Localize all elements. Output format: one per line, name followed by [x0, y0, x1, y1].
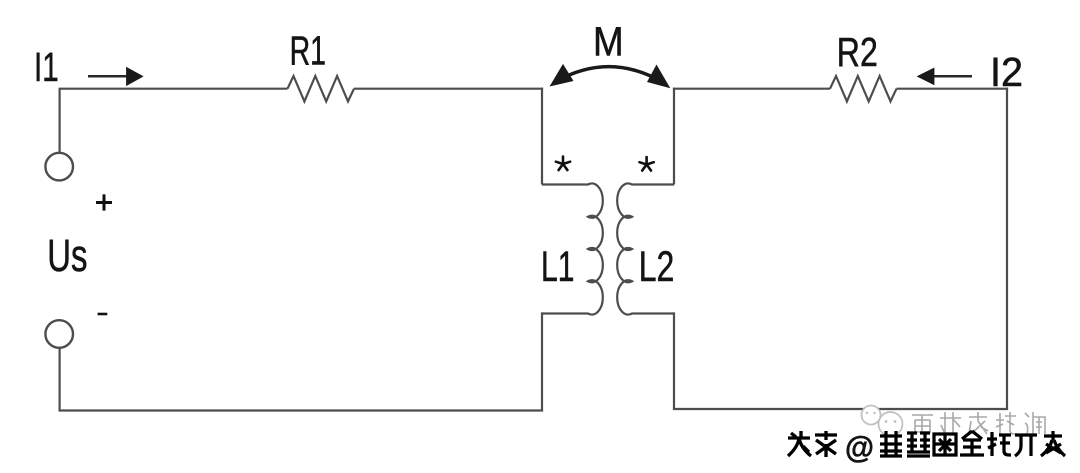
source terminal circle bottom — [45, 320, 73, 348]
wire left coupling drop — [541, 88, 543, 185]
wire bottom rail right — [673, 408, 1008, 410]
mutual coupling arrow M — [556, 67, 664, 83]
watermark black text (toutiao @ IoT fullstack dev) — [788, 431, 837, 457]
inductor L2 — [617, 183, 674, 314]
wire left lower vertical — [541, 312, 543, 410]
wire top rail right-inner — [673, 88, 830, 90]
inductor L1 — [542, 183, 603, 314]
source terminal circle top — [45, 153, 73, 181]
wire top rail left — [59, 88, 288, 90]
svg-text:L1: L1 — [541, 243, 574, 291]
current arrow I1 — [88, 75, 128, 78]
polarity dot marking L1 (asterisk) — [556, 157, 570, 171]
svg-text:L2: L2 — [639, 243, 675, 291]
wire top-left vertical — [58, 89, 60, 153]
svg-text:M: M — [593, 18, 624, 64]
wire bottom-left vertical — [58, 348, 60, 411]
svg-text:I1: I1 — [34, 44, 59, 90]
svg-text:@: @ — [845, 430, 874, 465]
svg-text:Us: Us — [47, 230, 87, 281]
current arrow I2 — [934, 75, 972, 78]
wire right coupling drop — [673, 88, 675, 185]
minus sign — [98, 313, 108, 316]
watermark gray text (hardware engineer) — [912, 412, 1045, 434]
svg-text:R1: R1 — [290, 28, 326, 74]
watermark wechat icon — [862, 406, 903, 437]
plus sign — [96, 194, 112, 210]
resistor R1 — [288, 76, 354, 101]
wire top rail mid — [354, 88, 543, 90]
resistor R2 — [830, 76, 897, 101]
svg-text:I2: I2 — [990, 49, 1023, 95]
polarity dot marking L2 (asterisk) — [639, 157, 653, 171]
wire bottom rail left — [59, 409, 544, 411]
svg-text:R2: R2 — [837, 29, 878, 75]
wire right vertical — [1006, 88, 1008, 409]
wire top rail right — [897, 88, 1009, 90]
wire right lower vertical — [673, 312, 675, 409]
